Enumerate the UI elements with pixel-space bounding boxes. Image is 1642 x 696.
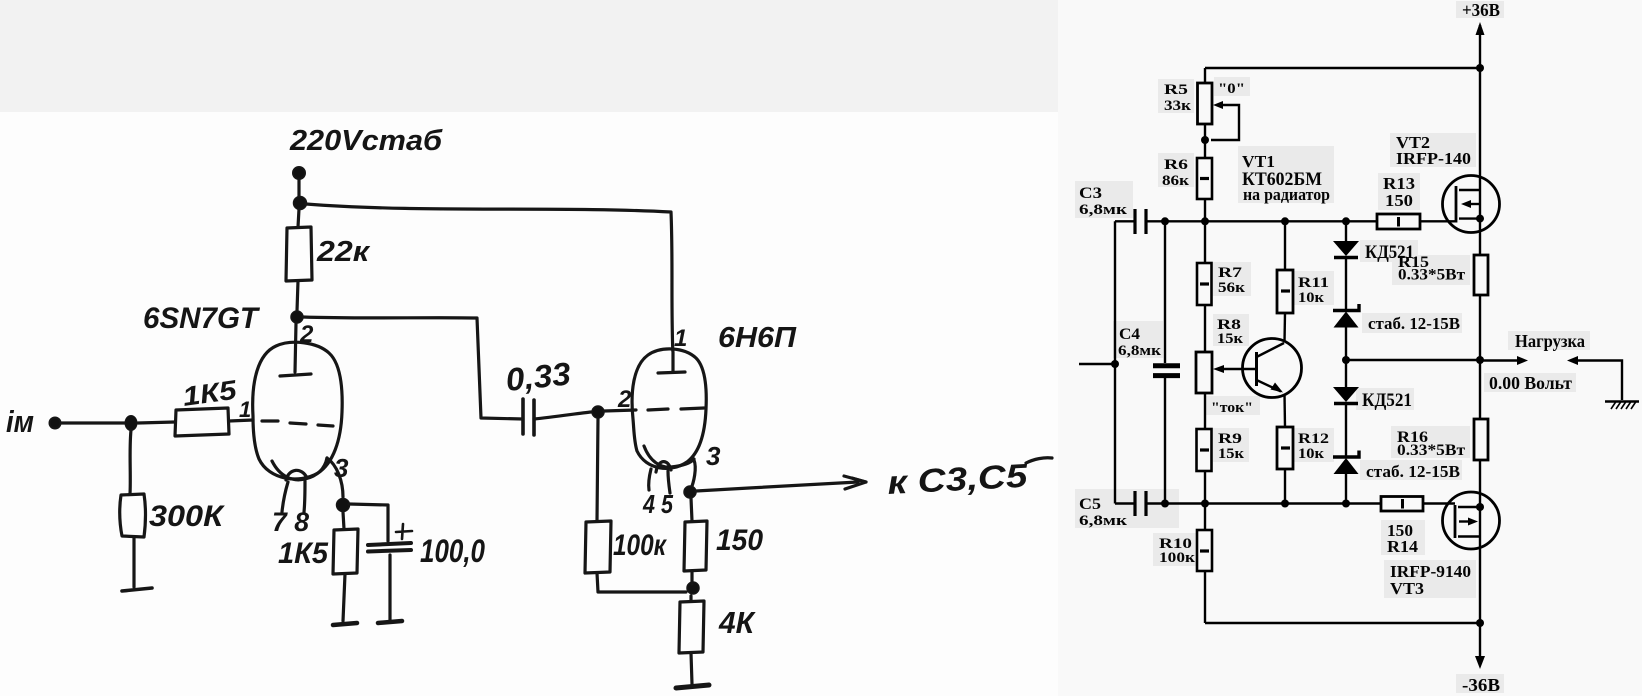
node F output junction	[684, 486, 696, 498]
svg-text:VT1: VT1	[1242, 152, 1275, 171]
svg-text:1К5: 1К5	[278, 537, 329, 570]
wire 100k bottom to node	[597, 573, 686, 592]
svg-text:iм: iм	[6, 404, 34, 439]
wire	[691, 653, 692, 684]
svg-text:100к: 100к	[1159, 550, 1195, 566]
wire	[1204, 68, 1206, 83]
node -36V junction	[1476, 619, 1484, 627]
svg-text:33к: 33к	[1164, 98, 1191, 114]
wire	[1345, 327, 1347, 387]
wire	[1204, 471, 1206, 503]
wire	[297, 179, 300, 197]
ground	[676, 685, 709, 688]
mosfet VT2	[1443, 176, 1500, 233]
resistor R9	[1197, 429, 1212, 471]
transistor VT1	[1243, 339, 1302, 398]
svg-text:+36В: +36В	[1462, 0, 1500, 20]
svg-text:R14: R14	[1387, 537, 1419, 556]
svg-text:6,8мк: 6,8мк	[1079, 202, 1127, 218]
resistor R10	[1197, 530, 1212, 571]
node input junction	[1111, 360, 1119, 368]
grid U1 dashes	[262, 421, 333, 426]
wire diode column top	[1345, 221, 1347, 241]
svg-text:"ток": "ток"	[1211, 400, 1253, 416]
diode VD1 KD521	[1333, 241, 1359, 256]
wire	[691, 498, 692, 521]
resistor R15	[1474, 255, 1488, 295]
resistor 150	[684, 521, 707, 571]
wire cap to grid node	[534, 412, 591, 419]
wire	[1204, 199, 1206, 221]
node bbus diode junction	[1342, 500, 1350, 508]
capacitor 100,0	[368, 543, 411, 545]
svg-text:R7: R7	[1218, 265, 1243, 281]
node E grid junction	[592, 406, 604, 418]
wire	[61, 421, 125, 424]
node bus C3 junction	[1161, 217, 1169, 225]
wire	[343, 574, 345, 621]
svg-text:150: 150	[716, 524, 763, 557]
wire	[689, 596, 692, 601]
capacitor C4	[1164, 221, 1166, 363]
heater pins U1	[282, 482, 288, 512]
svg-text:R11: R11	[1298, 275, 1329, 291]
resistor 1K5 cathode	[333, 529, 358, 574]
wire bottom rail	[1205, 622, 1480, 624]
wire	[1345, 474, 1347, 504]
node R5/R6 junction	[1201, 136, 1209, 144]
wire	[297, 281, 298, 311]
wire	[690, 571, 693, 584]
svg-text:стаб. 12-15В: стаб. 12-15В	[1366, 462, 1460, 481]
svg-text:на радиатор: на радиатор	[1243, 185, 1330, 204]
node bbus C5 junction	[1161, 500, 1169, 508]
svg-text:15к: 15к	[1218, 446, 1244, 462]
resistor R14	[1381, 497, 1423, 512]
svg-text:R12: R12	[1298, 431, 1329, 447]
load arrows	[1480, 359, 1518, 361]
wire bus R14 to gate	[1423, 502, 1455, 504]
ground	[122, 588, 152, 591]
svg-text:C3: C3	[1079, 185, 1102, 202]
wiper R8 arrow	[1223, 368, 1256, 370]
resistor R5 trimmer	[1198, 83, 1213, 124]
node 220V terminal	[293, 167, 305, 179]
resistor 4K	[679, 601, 704, 653]
svg-text:0.33*5Вт: 0.33*5Вт	[1397, 442, 1465, 459]
tube U1 envelope	[253, 342, 343, 479]
wire input stub	[1079, 363, 1115, 365]
svg-text:0.00 Вольт: 0.00 Вольт	[1489, 373, 1572, 393]
wire	[1345, 403, 1347, 457]
wire to 6N6P anode	[306, 204, 673, 351]
svg-text:к С3,С5: к С3,С5	[886, 457, 1028, 501]
wire	[343, 512, 344, 529]
svg-text:VT3: VT3	[1390, 579, 1424, 598]
tube U2 envelope	[632, 349, 706, 468]
svg-text:56к: 56к	[1218, 280, 1245, 296]
wire	[1283, 394, 1286, 427]
node C input junction	[125, 416, 137, 431]
node output junction	[1476, 356, 1484, 364]
wire	[1345, 257, 1347, 310]
anode U2	[671, 352, 674, 371]
svg-text:КД521: КД521	[1362, 391, 1412, 411]
resistor R7	[1197, 263, 1212, 305]
wire	[138, 422, 175, 423]
svg-text:100,0: 100,0	[420, 533, 485, 569]
resistor 300K	[120, 494, 146, 537]
node +36V junction	[1476, 64, 1484, 72]
svg-text:IRFP-140: IRFP-140	[1396, 149, 1471, 168]
wire cathode to node	[327, 458, 343, 497]
svg-text:4 5: 4 5	[642, 489, 673, 519]
wire	[1204, 504, 1206, 531]
wire node to cap	[349, 504, 388, 541]
node bbus R9 junction	[1201, 500, 1209, 508]
grid U2 dashes	[604, 408, 704, 411]
capacitor C3	[1115, 220, 1135, 222]
svg-text:-36В: -36В	[1462, 675, 1500, 695]
wire	[298, 209, 299, 227]
node 0V junction	[1342, 356, 1350, 364]
wire	[1284, 221, 1286, 270]
resistor 1K5 grid stopper	[175, 408, 229, 436]
anode U1	[295, 323, 296, 372]
ground chassis	[1605, 400, 1639, 402]
svg-text:"0": "0"	[1218, 81, 1245, 97]
zener VD4 12-15V	[1333, 451, 1359, 458]
svg-text:4К: 4К	[718, 605, 756, 640]
input terminal	[50, 418, 61, 429]
wire bus to R13 gate	[1420, 220, 1456, 222]
net +36V arrow	[1479, 25, 1481, 68]
wire	[1204, 221, 1206, 263]
wire	[1204, 571, 1206, 623]
svg-text:100к: 100к	[613, 529, 667, 562]
wire	[132, 537, 135, 587]
svg-text:10к: 10к	[1298, 290, 1324, 306]
node bbus R12 junction	[1281, 500, 1289, 508]
wire	[229, 420, 253, 421]
wire	[1204, 124, 1206, 158]
resistor R16	[1474, 419, 1488, 460]
resistor 100k	[585, 521, 611, 573]
wire	[1283, 313, 1286, 342]
resistor R13	[1377, 214, 1420, 229]
wire	[1204, 393, 1206, 429]
resistor R6	[1197, 158, 1212, 199]
svg-text:6SN7GT: 6SN7GT	[143, 302, 261, 335]
wire output arrow	[696, 482, 858, 491]
svg-text:6Н6П: 6Н6П	[718, 322, 797, 354]
wire	[1284, 469, 1286, 503]
node D cathode junction	[337, 499, 350, 512]
cathode U1 arc	[272, 458, 327, 480]
node bus R11 junction	[1281, 217, 1289, 225]
gray scan band top-left	[0, 0, 1058, 112]
svg-text:C4: C4	[1119, 326, 1140, 343]
svg-text:стаб. 12-15В: стаб. 12-15В	[1368, 314, 1460, 333]
svg-text:1: 1	[239, 397, 251, 422]
capacitor 100,0 plus sign	[396, 524, 412, 539]
ground	[378, 621, 402, 623]
svg-text:R5: R5	[1164, 82, 1188, 98]
heater pins U2	[649, 469, 651, 490]
resistor R12	[1277, 427, 1293, 469]
capacitor 0,33	[521, 399, 525, 434]
wire main bottom bus	[1146, 502, 1381, 504]
node B anode junction	[291, 311, 303, 323]
svg-text:R9: R9	[1218, 431, 1242, 447]
node A junction	[294, 197, 307, 210]
svg-text:6,8мк: 6,8мк	[1079, 513, 1127, 529]
node bus diode junction	[1342, 217, 1350, 225]
ground	[333, 623, 357, 625]
svg-text:6,8мк: 6,8мк	[1118, 343, 1161, 359]
resistor 22k	[286, 227, 312, 281]
net -36V arrow	[1479, 623, 1481, 657]
wire	[1204, 305, 1206, 352]
wire anode to coupling cap	[303, 317, 523, 419]
cathode U2 arc	[644, 446, 694, 467]
wire 0V rail	[1346, 359, 1480, 361]
resistor R11	[1277, 270, 1293, 313]
wire grid node down	[597, 418, 598, 521]
svg-text:Нагрузка: Нагрузка	[1515, 331, 1585, 351]
wire input to 300K	[130, 430, 131, 494]
svg-text:86к: 86к	[1162, 173, 1189, 189]
zener VD2 12-15V	[1333, 304, 1359, 311]
svg-text:7 8: 7 8	[272, 507, 309, 537]
wire	[1479, 460, 1481, 623]
wire	[388, 555, 391, 621]
svg-text:22к: 22к	[316, 236, 371, 268]
svg-text:10к: 10к	[1298, 446, 1324, 462]
diode VD3 KD521	[1333, 387, 1359, 402]
svg-text:300К: 300К	[149, 500, 226, 533]
node G junction	[687, 582, 699, 594]
wiper R5	[1211, 105, 1239, 140]
wire main top bus	[1146, 220, 1377, 222]
svg-text:R6: R6	[1164, 157, 1189, 173]
svg-text:C5: C5	[1079, 496, 1101, 513]
wire left input column	[1114, 221, 1116, 503]
node bus R6 junction	[1201, 217, 1209, 225]
svg-text:15к: 15к	[1217, 331, 1243, 347]
svg-text:3: 3	[706, 441, 721, 471]
mosfet VT3	[1443, 492, 1500, 549]
wire VT2 drain-source column	[1479, 68, 1481, 255]
resistor R8 trimmer	[1196, 352, 1212, 393]
wire	[1479, 295, 1481, 419]
svg-text:0,33: 0,33	[504, 355, 573, 398]
wire cathode to node	[691, 460, 696, 490]
wire top rail	[1205, 67, 1480, 69]
svg-text:150: 150	[1385, 191, 1413, 210]
capacitor C5	[1115, 502, 1135, 504]
svg-text:0.33*5Вт: 0.33*5Вт	[1398, 267, 1465, 284]
svg-text:220Vстаб: 220Vстаб	[289, 125, 443, 157]
